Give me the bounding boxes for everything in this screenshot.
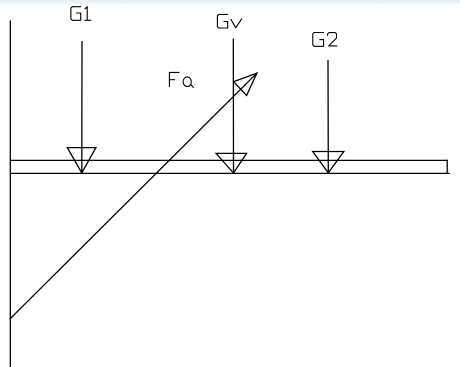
force Fa arrowhead [234,73,257,95]
label G1 digit 1 [85,7,91,21]
label G2 digit 2 [328,33,337,46]
force G2 arrowhead [313,152,344,173]
label Fa letter F [169,72,179,86]
force G2 arrow shaft [327,61,329,173]
force Gv arrowhead [216,153,247,173]
beam bottom edge [10,172,449,174]
label Fa letter a [183,77,191,87]
label G2 letter G [313,33,324,47]
wall vertical line [9,21,11,367]
label G1 letter G [71,7,81,21]
force Gv arrow shaft [232,39,234,173]
top window edge band [0,0,460,5]
label Gv letter G [217,14,227,28]
label Gv letter v [231,19,242,28]
beam right end cap [446,160,448,173]
force Fa diagonal shaft [10,73,257,319]
beam top edge [10,159,447,161]
force G1 arrow shaft [81,42,83,173]
force G1 arrowhead [67,148,96,173]
